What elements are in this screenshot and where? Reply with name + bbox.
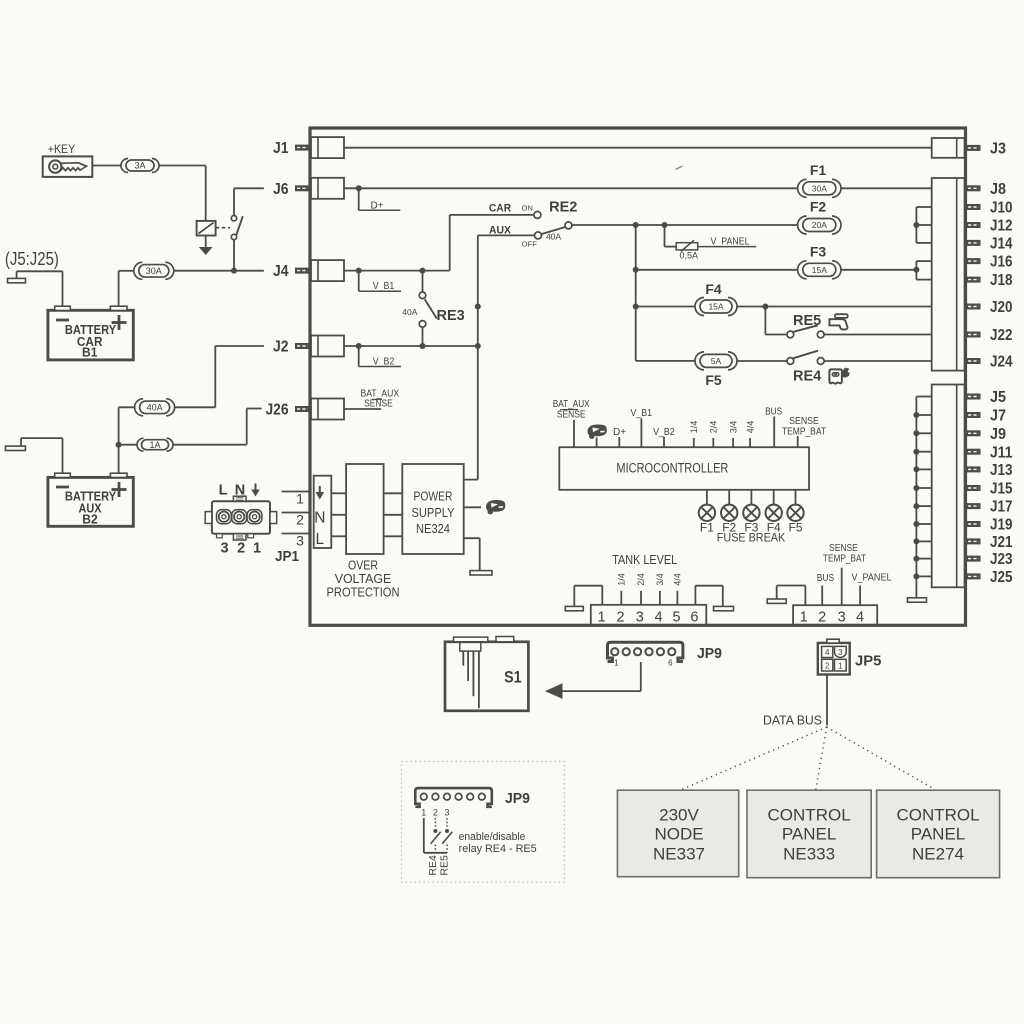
label J16 [990,254,1013,271]
connector pin J15 stub [966,485,981,491]
wire JP1 pin2 [282,512,310,514]
label F1 [810,162,827,178]
svg-text:230V: 230V [659,806,699,825]
label JP1 [275,548,299,565]
label J4 [273,263,289,280]
label J6 [273,181,289,198]
pin TEMP_BAT of sense connector [823,543,866,605]
ground bar tank pin6 [714,606,734,610]
connector J26 pin stub [295,406,310,412]
pin 1/4 of tank connector [617,573,627,605]
pin number 3 of sense connector [838,609,846,625]
svg-text:J3: J3 [990,141,1006,158]
connector pin J13 stub [966,466,981,472]
junction F3 at bracket [913,267,919,273]
junction F4 out to RE5 [762,304,768,310]
pin D+ of micro [613,427,626,447]
svg-text:B2: B2 [82,513,97,527]
label 40A of RE2 [546,231,561,241]
svg-text:3: 3 [296,533,304,549]
svg-text:D+: D+ [370,200,383,211]
svg-text:2: 2 [296,512,304,528]
svg-text:RE2: RE2 [549,199,577,215]
wire fuse 1A to J26 [173,409,262,445]
water tap icon [829,314,847,329]
microcontroller box [559,447,809,490]
label RE3 [437,308,465,324]
label enable/disable [459,831,526,843]
junction RE3 bottom [420,343,426,349]
connector J2 box [311,336,344,357]
fuse F1 [798,179,841,197]
connector J6 box [311,178,344,199]
connector pin J7 stub [966,412,981,418]
fuse-break lamp F4 [766,490,782,535]
pin BUS of sense connector [817,573,835,605]
svg-text:F5: F5 [788,520,802,534]
svg-text:3: 3 [636,609,644,625]
svg-text:J24: J24 [990,354,1013,371]
connector pin J11 stub [966,449,981,455]
svg-text:1/4: 1/4 [617,573,627,586]
svg-text:V_B2: V_B2 [373,356,395,367]
svg-text:J26: J26 [266,402,289,419]
svg-text:4: 4 [856,609,864,625]
label TANK LEVEL [612,552,677,567]
label 3 of JP9 detail [444,808,449,818]
label N of JP1 [235,483,245,499]
label CAR [489,203,511,215]
wire F3 line [636,269,917,271]
svg-text:F1: F1 [810,162,827,178]
svg-text:0,5A: 0,5A [680,251,699,261]
svg-text:SENSE: SENSE [557,409,586,420]
svg-text:30A: 30A [812,184,827,194]
battery B2 [48,473,133,526]
label J13 [990,462,1013,479]
label 1 of JP9 detail [421,808,426,818]
svg-text:J18: J18 [990,272,1013,289]
svg-text:NODE: NODE [654,825,703,844]
label J9 [990,426,1006,443]
sense pin1 ground wire [777,586,806,606]
pin V_B1 of micro [631,408,653,447]
wire RE5 to J22 [824,334,932,336]
connector pin J5 stub [966,394,981,400]
svg-text:DATA BUS: DATA BUS [763,713,822,727]
junction RE3 top [420,268,426,274]
label JP5 [855,653,881,670]
svg-text:40A: 40A [402,307,417,317]
chassis ground B2 [5,438,25,450]
relay RE1 coil [197,221,216,236]
svg-text:relay RE4 - RE5: relay RE4 - RE5 [459,843,537,855]
svg-text:15A: 15A [812,265,827,275]
label RE5 [793,313,821,329]
label J14 [990,236,1013,253]
svg-text:SUPPLY: SUPPLY [412,506,456,520]
pin number 2 of sense connector [818,609,826,625]
label 1 at board edge [296,491,304,507]
svg-text:JP1: JP1 [275,548,299,565]
wire JP1 pin1 [282,491,310,493]
svg-text:J14: J14 [990,236,1013,253]
svg-text:3: 3 [444,808,449,818]
svg-text:J19: J19 [990,517,1013,534]
label RE4 [793,368,821,384]
label 2 at board edge [296,512,304,528]
wire RE4 to J24 [824,360,932,362]
wire J1 to J3 [344,147,932,149]
bus wire to fuses F3 F4 F5 [635,225,637,361]
label J24 [990,354,1013,371]
svg-text:2: 2 [818,609,826,625]
earth arrow of JP1 [251,484,260,497]
label J25 [990,569,1013,586]
svg-text:S1: S1 [504,668,522,687]
svg-text:JP9: JP9 [505,790,530,807]
junction relay output on J4 line [231,268,237,274]
junction bus at F3 [633,267,639,273]
svg-text:RE3: RE3 [437,308,465,324]
wires OVP to power supply [384,493,403,536]
wire coil to ground [205,236,207,248]
svg-text:PANEL: PANEL [782,825,837,844]
connector pin J12 stub [966,222,981,228]
label 6 of JP9 [668,658,673,667]
wire ground to battery B2 minus [21,438,63,473]
pin 4/4 of micro [745,421,755,447]
svg-text:F3: F3 [810,243,827,259]
svg-text:MICROCONTROLLER: MICROCONTROLLER [616,461,728,476]
label DATA BUS [763,713,822,727]
fuse 30A [134,262,174,279]
connector J3 pin stub [966,145,981,151]
wire J6 to relay switch [234,188,264,215]
label AUX [489,225,512,237]
svg-text:TANK LEVEL: TANK LEVEL [612,552,677,567]
svg-text:J4: J4 [273,263,289,280]
wire B2 plus to fuse 1A [119,444,137,446]
net label V_B1 tap [359,271,401,292]
connector pin J16 stub [966,258,981,264]
svg-text:4/4: 4/4 [745,421,755,434]
wire ground to battery B1 minus [17,271,63,306]
pin SENSE TEMP_BAT of micro [782,416,826,447]
fuse 40A [135,399,175,416]
svg-text:5A: 5A [711,356,722,366]
label 0,5A [680,251,699,261]
connector J1 box [311,137,344,158]
main control unit board outline [310,128,966,625]
label J23 [990,551,1013,568]
connector pin J18 stub [966,277,981,283]
wire battery B2 plus to fuse 40A [119,407,135,473]
label RE5 rotated [438,855,450,876]
svg-text:J22: J22 [990,327,1013,344]
ground bar tank pin1 [565,606,583,610]
ground arrow under relay coil [199,247,213,255]
junction RE2 out at bus [633,222,639,228]
connector J4 box [311,260,344,281]
svg-text:J6: J6 [273,181,289,198]
svg-text:J1: J1 [273,140,289,157]
label J11 [990,444,1013,461]
svg-text:CAR: CAR [489,203,511,215]
pin number 2 of tank connector [616,609,624,625]
dashed detail frame [402,762,565,883]
pin BUS of micro [765,407,782,448]
buzzer icon at micro [588,424,607,438]
connector pin J19 stub [966,521,981,527]
pin 1/4 of micro [689,421,699,447]
svg-text:J21: J21 [990,534,1013,551]
svg-text:3: 3 [838,648,843,657]
connector J1 pin stub [295,145,310,151]
wire RE2 common to fuse F2 [572,224,798,226]
sensor S1 [445,637,528,711]
svg-text:2: 2 [616,609,624,625]
connector pin J25 stub [966,573,981,579]
switch RE2 [534,211,572,239]
svg-text:J16: J16 [990,254,1013,271]
label 1 of JP9 [614,659,619,668]
connector pin J23 stub [966,556,981,562]
label J26 [266,402,289,419]
svg-text:1A: 1A [149,440,160,450]
switch RE4 [787,351,824,365]
svg-text:2/4: 2/4 [709,421,719,434]
connector pin J9 stub [966,430,981,436]
label ON [522,204,533,213]
svg-text:J13: J13 [990,462,1013,479]
connector JP9 detail [415,788,492,807]
label F2 [810,199,827,215]
svg-text:4: 4 [825,648,830,657]
svg-text:RE5: RE5 [438,855,450,876]
toilet icon [829,368,849,384]
svg-text:AUX: AUX [489,225,512,237]
dotted link to 230V node [682,727,827,790]
label J8 [990,181,1006,198]
svg-text:NE333: NE333 [783,845,835,864]
wire PSU buzzer [464,506,481,508]
svg-text:RE5: RE5 [793,313,821,329]
svg-text:1: 1 [253,541,261,557]
junction F2 at bracket [913,222,919,228]
fuse 3A [121,159,159,173]
connector pin J17 stub [966,503,981,509]
pin 3/4 of micro [728,421,738,447]
label J17 [990,499,1013,516]
pin V_B2 of micro [653,427,675,447]
stray scan mark [676,166,683,170]
label OVER VOLTAGE PROTECTION [327,557,400,599]
dotted link to control panel NE274 [827,727,935,790]
label F4 [705,281,722,297]
fuse-break lamp F3 [743,490,759,535]
chassis ground B1 [8,271,26,283]
svg-text:N: N [314,510,325,527]
svg-text:15A: 15A [708,302,723,312]
box CONTROL PANEL NE274 [877,790,1000,878]
dotted control pin3 [446,818,448,829]
svg-text:(J5:J25): (J5:J25) [5,249,59,269]
label J22 [990,327,1013,344]
label FUSE BREAK [717,530,785,544]
wire battery B1 plus to fuse 30A [119,271,134,306]
junction RE2 out at V_PANEL branch [662,222,668,228]
connector pin J20 stub [966,304,981,310]
pin number 1 of sense connector [800,609,808,625]
svg-text:2: 2 [825,661,830,670]
fuse-break lamp F5 [787,490,803,535]
label L of JP1 [219,483,228,499]
svg-text:J23: J23 [990,551,1013,568]
box 230V NODE NE337 [617,790,738,877]
wire J4 V_B1 line [344,270,450,272]
svg-text:TEMP_BAT: TEMP_BAT [823,553,866,564]
pin number 4 of tank connector [655,609,663,625]
fuse F4 [695,298,737,316]
svg-text:L: L [315,531,324,548]
ground bar PSU [470,571,492,575]
svg-text:6: 6 [690,609,698,625]
connector pin J10 stub [966,204,981,210]
tank pin6 ground wire [695,586,722,607]
pin number 5 of tank connector [673,609,681,625]
junction on J6 line at D+ tap [356,185,362,191]
svg-text:3/4: 3/4 [728,421,738,434]
wire F5 line [636,360,787,362]
connector JP9 [608,642,683,661]
svg-text:J10: J10 [990,200,1013,217]
svg-text:NE274: NE274 [912,845,964,864]
svg-text:3: 3 [838,609,846,625]
power supply NE324 box [402,464,463,554]
net label V_PANEL stub [698,236,757,247]
svg-text:J25: J25 [990,569,1013,586]
label J19 [990,517,1013,534]
connector pin J21 stub [966,538,981,544]
svg-text:1/4: 1/4 [689,421,699,434]
wire JP5 data bus [826,675,828,726]
fuse 1A [137,438,173,451]
label 3 of JP1 [221,541,229,557]
svg-text:TEMP_BAT: TEMP_BAT [782,427,826,438]
label RE4 rotated [427,855,439,876]
svg-text:FUSE BREAK: FUSE BREAK [717,530,785,544]
svg-text:J15: J15 [990,481,1013,498]
svg-text:5: 5 [673,609,681,625]
svg-text:40A: 40A [147,403,163,413]
svg-text:NE324: NE324 [416,522,450,536]
pin number 3 of tank connector [636,609,644,625]
svg-text:6: 6 [668,658,673,667]
svg-text:BAT_AUX: BAT_AUX [553,399,590,410]
wire fuse 3A to relay coil [159,166,206,221]
net label V_B2 tap [359,346,401,367]
connector pin J8 stub [966,185,981,191]
svg-text:B1: B1 [82,345,97,359]
bracket J10-J14 [916,207,931,243]
wire relay switch to J4 line [233,240,235,271]
label 2 of JP9 detail [433,808,438,818]
junction B2 plus to fuse 1A [116,442,122,448]
connector JP5 [818,639,850,674]
pin number 6 of tank connector [690,609,698,625]
svg-text:1: 1 [614,659,619,668]
junction AUX at V_B2 line [475,343,481,349]
wire J2 V_B2 line [344,345,478,347]
svg-text:BUS: BUS [817,573,835,584]
connector pin J22 stub [966,332,981,338]
key switch symbol box [43,156,93,177]
over voltage protection box [346,464,384,554]
svg-text:enable/disable: enable/disable [459,831,526,843]
wire pin1 common [424,818,447,853]
svg-text:NE337: NE337 [653,845,705,864]
svg-text:1: 1 [421,808,426,818]
net label D+ tap [359,188,401,211]
box CONTROL PANEL NE333 [747,790,871,878]
wire PSU to ground [464,538,480,570]
switch RE5 enable [442,829,452,853]
label J1 [273,140,289,157]
wire fuse 40A to J2 [174,346,264,407]
fuse-break lamp F2 [721,490,737,535]
label J5 [990,389,1006,406]
relay actuation dashed link [216,227,230,229]
switch RE4 enable [431,829,441,853]
wire F1 to header J8 [841,187,932,189]
label 40A of RE3 [402,307,417,317]
svg-text:2: 2 [433,808,438,818]
svg-text:SENSE: SENSE [789,416,819,427]
svg-text:SENSE: SENSE [364,399,393,410]
battery B1 [48,306,133,360]
tank level connector box [591,605,707,626]
svg-text:1: 1 [296,491,304,507]
wire F4 to RE5 [765,307,786,335]
svg-text:20A: 20A [812,220,827,230]
svg-text:1: 1 [597,609,605,625]
svg-text:OFF: OFF [522,239,537,248]
label RE2 [549,199,577,215]
wires mains to OVP [331,493,346,536]
svg-text:F5: F5 [705,372,722,388]
fuse F5 [695,352,737,370]
pin 2/4 of micro [709,421,719,447]
label (J5:J25) [5,249,59,269]
label 3 at board edge [296,533,304,549]
label 2 of JP1 [237,541,245,557]
label J18 [990,272,1013,289]
svg-text:J11: J11 [990,444,1013,461]
junction V_B1 tap [356,268,362,274]
label F3 [810,243,827,259]
bracket J16-J18 [916,261,931,280]
label JP9 detail [505,790,530,807]
svg-text:CONTROL: CONTROL [768,806,851,825]
svg-text:1: 1 [838,661,843,670]
wire AUX to power supply [464,235,478,479]
svg-text:V_PANEL: V_PANEL [852,572,892,583]
svg-text:2/4: 2/4 [636,573,646,586]
dotted control pin2 [434,818,436,829]
pin 2/4 of tank connector [636,573,646,605]
svg-text:PROTECTION: PROTECTION [327,585,400,600]
